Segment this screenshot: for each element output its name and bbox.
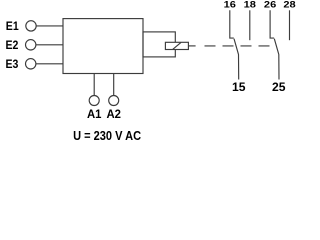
svg-text:U = 230 V AC: U = 230 V AC [73,128,142,143]
wire from coil [188,45,195,47]
wire A1 [93,74,95,96]
terminal line 26 (NC) with hook [270,10,274,38]
svg-text:E2: E2 [6,38,19,52]
svg-text:A1: A1 [87,107,102,121]
svg-text:16: 16 [224,0,236,11]
terminal circle E1 [26,21,36,31]
svg-text:15: 15 [232,80,246,94]
contact arm 25 [274,39,279,80]
svg-text:A2: A2 [106,107,121,121]
wire E3 to box [36,63,63,65]
terminal line 18 (NO) [249,10,251,40]
svg-text:28: 28 [283,0,295,11]
terminal circle A2 [109,96,119,106]
output section box [143,32,175,57]
wire A2 [113,74,115,96]
svg-text:26: 26 [264,0,276,11]
contact arm 15 [234,39,239,80]
svg-text:E3: E3 [6,57,19,71]
terminal line 16 (NC) with hook [230,10,234,38]
terminal circle E3 [26,59,36,69]
mechanical link (dashed) [205,45,277,47]
svg-text:18: 18 [244,0,256,11]
relay coil K (rectangle with diagonal) [165,42,188,49]
wire E2 to box [36,44,63,46]
terminal circle E2 [26,40,36,50]
terminal line 28 (NO) [289,10,291,40]
wire E1 to box [36,25,63,27]
terminal circle A1 [89,96,99,106]
device body box [63,19,143,74]
svg-text:E1: E1 [6,19,19,33]
svg-text:25: 25 [272,80,286,94]
